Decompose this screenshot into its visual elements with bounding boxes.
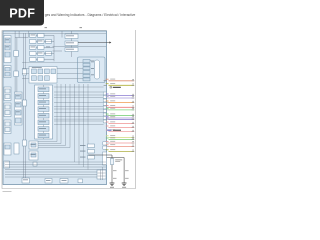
svg-text:ges and Warning Indicators - D: ges and Warning Indicators - Diagrams / … <box>45 12 136 17</box>
svg-text:PDF: PDF <box>9 7 35 21</box>
